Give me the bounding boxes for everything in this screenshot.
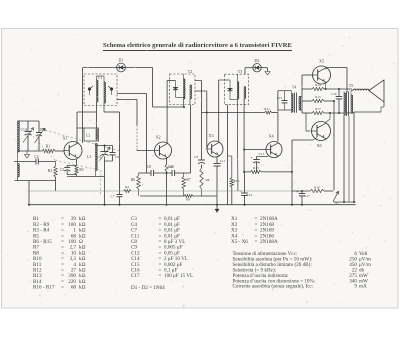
svg-text:X3: X3 bbox=[208, 133, 213, 138]
svg-text:T3: T3 bbox=[238, 69, 242, 74]
svg-text:C5: C5 bbox=[97, 155, 101, 159]
svg-text:L3: L3 bbox=[87, 155, 91, 159]
svg-text:+: + bbox=[250, 155, 253, 160]
svg-text:R12: R12 bbox=[234, 179, 240, 183]
svg-text:C1B: C1B bbox=[40, 128, 47, 132]
svg-text:R9: R9 bbox=[186, 198, 190, 202]
svg-text:X5: X5 bbox=[319, 59, 324, 64]
svg-text:+: + bbox=[296, 189, 299, 194]
svg-text:R1: R1 bbox=[46, 145, 51, 149]
svg-text:=: = bbox=[61, 285, 64, 291]
svg-text:=: = bbox=[255, 239, 258, 245]
svg-text:C8: C8 bbox=[147, 165, 151, 169]
svg-text:R8: R8 bbox=[206, 178, 210, 182]
svg-text:C7: C7 bbox=[111, 195, 115, 199]
svg-text:kΩ: kΩ bbox=[79, 285, 86, 291]
svg-text:R17: R17 bbox=[315, 107, 321, 111]
svg-text:R11: R11 bbox=[264, 107, 270, 111]
svg-text:=: = bbox=[159, 273, 162, 279]
svg-text:C17: C17 bbox=[131, 273, 140, 279]
svg-text:mA: mA bbox=[359, 284, 367, 290]
svg-text:68: 68 bbox=[71, 285, 77, 291]
svg-text:C3: C3 bbox=[60, 168, 64, 172]
svg-text:R16 - R17: R16 - R17 bbox=[33, 285, 55, 291]
svg-text:R15: R15 bbox=[315, 95, 321, 99]
svg-text:R3: R3 bbox=[79, 168, 83, 172]
svg-text:2N188A: 2N188A bbox=[260, 239, 278, 245]
svg-text:100 μF 15 VL: 100 μF 15 VL bbox=[164, 273, 193, 279]
svg-text:R2: R2 bbox=[48, 169, 53, 173]
svg-text:X5 - X6: X5 - X6 bbox=[231, 239, 248, 245]
svg-text:9: 9 bbox=[354, 284, 357, 290]
svg-text:C6: C6 bbox=[115, 155, 119, 159]
svg-text:R16: R16 bbox=[314, 186, 320, 190]
svg-text:R7: R7 bbox=[186, 178, 190, 182]
svg-text:T2: T2 bbox=[188, 69, 192, 74]
svg-text:C13: C13 bbox=[259, 152, 265, 156]
svg-text:R6: R6 bbox=[131, 178, 135, 182]
svg-text:D1 - D2 = 1N64: D1 - D2 = 1N64 bbox=[131, 285, 165, 291]
svg-text:X4: X4 bbox=[268, 134, 274, 139]
svg-text:D2: D2 bbox=[255, 58, 260, 63]
svg-text:Schema elettrico generale di r: Schema elettrico generale di radioricevi… bbox=[103, 42, 292, 49]
svg-text:T4: T4 bbox=[292, 86, 296, 90]
svg-text:C2: C2 bbox=[34, 155, 38, 159]
svg-text:C10: C10 bbox=[168, 165, 174, 169]
svg-text:C15: C15 bbox=[277, 96, 283, 100]
svg-text:L2: L2 bbox=[86, 134, 90, 138]
svg-text:T5: T5 bbox=[349, 84, 353, 88]
svg-text:R13: R13 bbox=[253, 166, 259, 170]
svg-text:C17: C17 bbox=[304, 194, 310, 198]
svg-text:X6: X6 bbox=[316, 143, 321, 148]
svg-text:C14: C14 bbox=[247, 193, 253, 197]
svg-text:C1A: C1A bbox=[21, 128, 28, 132]
svg-text:R4: R4 bbox=[125, 185, 129, 189]
svg-text:C11: C11 bbox=[220, 159, 226, 163]
svg-text:D1: D1 bbox=[119, 58, 124, 63]
svg-text:X2: X2 bbox=[155, 135, 160, 140]
svg-text:C16: C16 bbox=[331, 92, 337, 96]
svg-text:C9: C9 bbox=[194, 155, 198, 159]
